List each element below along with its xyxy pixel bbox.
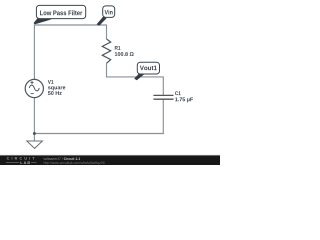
watermark line2 url	[44, 162, 105, 165]
resistor R1	[102, 39, 110, 63]
capacitor C1	[153, 95, 173, 99]
callout box Low Pass Filter	[36, 5, 85, 18]
watermark logo LAB	[21, 161, 30, 164]
wire bottom horizontal	[34, 133, 163, 135]
watermark line1 title	[64, 157, 80, 159]
wire C1 top vertical	[162, 76, 164, 95]
wire top horizontal	[35, 24, 107, 26]
callout text Vin	[105, 10, 113, 15]
watermark bar	[0, 155, 220, 165]
callout text Low Pass Filter	[40, 10, 82, 15]
label C1	[175, 91, 181, 95]
source V1 circle	[25, 79, 43, 97]
callout tail Vin	[97, 17, 107, 26]
watermark logo trace line	[6, 161, 37, 163]
wire V1 to ground	[33, 98, 35, 141]
watermark line1 user	[44, 157, 63, 159]
source V1 sine glyph	[29, 85, 39, 91]
V1 value 50 Hz	[48, 91, 62, 95]
callout text Vout1	[140, 66, 157, 71]
wire mid horizontal to C1	[106, 76, 163, 78]
value 100.8 ohm	[115, 52, 134, 56]
wire Vin corner vertical	[106, 25, 108, 40]
V1 type square	[48, 86, 65, 90]
callout tail Low Pass Filter	[34, 18, 52, 24]
wire left rail vertical	[33, 25, 35, 80]
callout box Vin	[103, 6, 115, 18]
watermark logo CIRCUIT	[7, 157, 35, 160]
label V1	[48, 80, 54, 84]
callout box Vout1	[137, 62, 159, 74]
label R1	[115, 46, 121, 50]
wire R1 bottom segment	[106, 63, 108, 77]
value 1.75 uF	[175, 97, 193, 102]
junction node dot	[33, 132, 36, 135]
wire C1 bottom vertical	[162, 99, 164, 134]
source V1 plus sign	[30, 81, 33, 84]
ground symbol	[27, 141, 43, 148]
callout tail Vout1	[134, 73, 146, 81]
source V1 minus sign	[31, 93, 34, 95]
